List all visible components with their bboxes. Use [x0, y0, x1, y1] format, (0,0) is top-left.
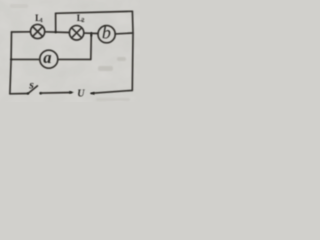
lamp L2 circle [69, 26, 83, 40]
arrowhead pointing right toward U [69, 91, 74, 94]
wire: lamp L1 to lamp L2 [45, 31, 70, 34]
lamp L1 cross [33, 27, 43, 37]
arrowhead pointing left toward U [90, 92, 95, 95]
wire: top-left corner to lamp L1 [12, 31, 31, 33]
wire: right arrow to bottom-right corner [91, 90, 132, 93]
meter b circle [98, 26, 115, 43]
svg-text:s: s [28, 77, 34, 91]
wire: switch to left arrow [42, 92, 72, 95]
meter a circle [40, 50, 58, 68]
junction tick between L2 and meter b [91, 32, 93, 37]
lamp L1 circle [30, 24, 44, 38]
wire: branch from junction down to corner [90, 34, 93, 60]
switch left contact dot [27, 92, 29, 94]
wire: meter b to right rail [115, 32, 133, 35]
wire: lamp L2 to meter b [84, 32, 98, 34]
wire: bottom-left corner to switch [10, 93, 28, 95]
faint bleed-through smudges [10, 4, 130, 101]
wire: left rail [10, 32, 12, 94]
wire: bypass top horizontal [56, 11, 133, 13]
junction dot between L1 and L2 [55, 31, 57, 33]
svg-text:U: U [77, 88, 85, 99]
wire: meter a to left rail [11, 58, 40, 60]
wire: right rail [131, 11, 134, 90]
switch S blade [28, 86, 37, 94]
svg-text:b: b [102, 22, 111, 42]
svg-text:a: a [43, 48, 51, 67]
paper background [0, 0, 140, 102]
lamp L2 cross [72, 28, 82, 38]
switch right contact dot [39, 92, 42, 95]
wire: bypass branch vertical [55, 13, 57, 31]
wire: corner to meter a [58, 58, 91, 60]
svg-text:1: 1 [40, 17, 43, 24]
junction dot on left rail at meter a wire [10, 59, 12, 61]
svg-text:2: 2 [81, 17, 84, 24]
